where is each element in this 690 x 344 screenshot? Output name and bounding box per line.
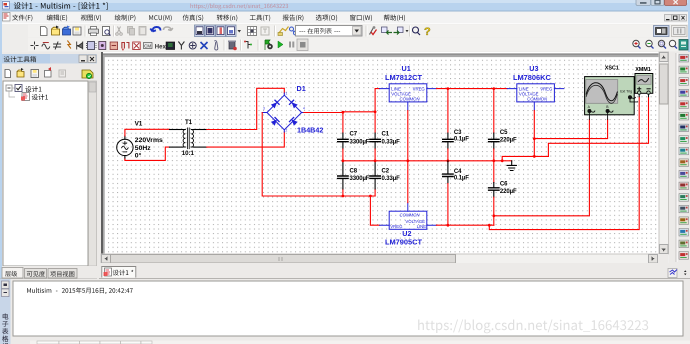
value 220Vrms 50Hz 0deg — [135, 137, 163, 159]
svg-text:C4: C4 — [454, 169, 462, 175]
svg-text:220µF: 220µF — [500, 138, 517, 144]
svg-text:LM7806KC: LM7806KC — [513, 73, 551, 82]
junction scope A tap — [492, 214, 495, 217]
svg-text:C5: C5 — [500, 130, 508, 136]
wire xmm plus from -5V rail — [489, 97, 639, 230]
junction C7 C8 0V — [342, 159, 345, 162]
wire bridge + output to C7 C1 U1 input rail — [304, 111, 375, 114]
junction U1 U2 common 0V — [406, 159, 409, 162]
svg-text:V1: V1 — [135, 120, 143, 127]
svg-text:1: 1 — [286, 92, 288, 96]
voltage regulator U2 LM7905CT — [380, 203, 437, 230]
svg-text:220µF: 220µF — [500, 189, 517, 195]
junction C8 negative rail — [342, 195, 345, 198]
svg-text:U1: U1 — [402, 64, 411, 73]
junction U3 common scope B tap — [533, 137, 536, 140]
svg-text:3: 3 — [263, 107, 265, 111]
AC source V1 — [117, 136, 133, 159]
junction C3 C4 0V — [447, 159, 450, 162]
wire U1 common to 0V rail — [407, 111, 409, 161]
capacitor C5 — [489, 133, 499, 149]
junction U2 input drop — [369, 195, 372, 198]
bridge rectifier D1 — [262, 93, 304, 132]
svg-text:VREG: VREG — [540, 87, 553, 92]
svg-text:C6: C6 — [500, 182, 508, 188]
wire C6 top lead from 0V rail — [493, 161, 495, 183]
svg-text:C7: C7 — [350, 132, 358, 138]
junction C4 -5V — [447, 224, 450, 227]
voltage regulator U1 LM7812CT — [380, 84, 437, 111]
wire T1 secondary top to bridge AC1 — [207, 88, 284, 129]
wire V1 top to T1 primary top — [125, 129, 170, 136]
svg-text:1B4B42: 1B4B42 — [297, 126, 323, 135]
junction bridge+ C7 — [342, 111, 345, 114]
capacitor C8 — [338, 161, 348, 189]
junction 0V rail corner — [501, 159, 504, 162]
wire C5 top lead — [493, 89, 495, 133]
svg-text:220Vrms: 220Vrms — [135, 137, 163, 144]
wire negative rail to U2 input — [370, 196, 379, 225]
svg-text:2: 2 — [286, 129, 288, 133]
svg-text:10:1: 10:1 — [182, 150, 195, 157]
svg-text:Ext Trig: Ext Trig — [620, 89, 632, 93]
wire T1 secondary bottom to bridge AC2 — [207, 132, 284, 147]
wire bridge - output to negative rail — [262, 113, 375, 197]
svg-text:C8: C8 — [350, 169, 358, 175]
svg-text:LM7812CT: LM7812CT — [385, 73, 422, 82]
svg-text:0.1µF: 0.1µF — [454, 176, 469, 182]
wire xmm minus to 0V — [548, 97, 648, 157]
svg-text:COMMON: COMMON — [400, 212, 421, 217]
svg-text:50Hz: 50Hz — [135, 145, 151, 152]
wire 0V middle rail — [343, 156, 549, 160]
wire C5 bottom to 0V rail — [493, 149, 495, 161]
wire C6 bottom to -5V rail and scope A tap — [493, 197, 495, 225]
capacitor C4 — [443, 161, 453, 184]
junction C3 +12V — [447, 87, 450, 90]
svg-text:LINE: LINE — [417, 224, 427, 229]
svg-text:C1: C1 — [382, 132, 390, 138]
wire scope B — [534, 119, 607, 138]
svg-text:D1: D1 — [297, 84, 306, 93]
capacitor C7 — [338, 133, 348, 149]
capacitor C1 — [370, 133, 380, 149]
oscilloscope XSC1 — [585, 77, 638, 120]
wire -5V rail U2 out to C4 C6 — [436, 224, 493, 226]
junction C5 C6 0V — [492, 159, 495, 162]
voltage regulator U3 LM7806KC — [507, 84, 564, 111]
wire U3 common down to 0V — [533, 111, 535, 157]
svg-text:COMMON: COMMON — [400, 97, 421, 102]
wire C4 bottom to -5V rail — [447, 184, 449, 226]
svg-text:0.33µF: 0.33µF — [382, 140, 401, 146]
wire scope A — [494, 119, 590, 215]
junction C5 +12V — [492, 87, 495, 90]
ground — [502, 161, 516, 171]
capacitor C3 — [443, 133, 453, 149]
capacitor C6 — [489, 183, 499, 198]
wire C7 bottom to 0V rail — [342, 149, 344, 161]
junction C1 C2 0V — [374, 159, 377, 162]
junction U3 common — [533, 155, 536, 158]
svg-text:3300µF: 3300µF — [350, 176, 370, 182]
junction C6 xmm tap — [488, 224, 491, 227]
junction C1 U1 — [374, 110, 377, 113]
transformer T1 — [170, 128, 207, 149]
wire V1 bottom to T1 primary bottom — [125, 147, 170, 160]
svg-text:3300µF: 3300µF — [350, 140, 370, 146]
svg-text:C2: C2 — [382, 169, 390, 175]
svg-text:U3: U3 — [529, 64, 538, 73]
multimeter XMM1 — [635, 74, 653, 97]
svg-text:VOLTAGE: VOLTAGE — [391, 91, 411, 96]
wire +12V rail U1 out to U3 in — [436, 88, 507, 90]
svg-text:0°: 0° — [135, 151, 142, 159]
svg-text:T1: T1 — [185, 119, 193, 126]
svg-text:VOLTAGE: VOLTAGE — [519, 91, 539, 96]
svg-text:0.33µF: 0.33µF — [382, 176, 401, 182]
wire U2 common up to 0V rail — [407, 161, 409, 203]
capacitor C2 — [370, 161, 380, 189]
svg-text:XSC1: XSC1 — [605, 65, 619, 71]
svg-text:LM7905CT: LM7905CT — [385, 238, 422, 247]
wire C1 bottom to 0V rail — [374, 149, 376, 161]
svg-text:COMMON: COMMON — [527, 97, 548, 102]
svg-text:C3: C3 — [454, 130, 462, 136]
wire C3 bottom to 0V rail — [447, 149, 449, 161]
wire C3 top lead — [447, 89, 449, 133]
svg-text:VREG: VREG — [390, 224, 403, 229]
svg-text:XMM1: XMM1 — [635, 67, 651, 73]
svg-text:4: 4 — [303, 107, 305, 111]
svg-text:VREG: VREG — [413, 87, 426, 92]
svg-text:0.1µF: 0.1µF — [454, 137, 469, 143]
